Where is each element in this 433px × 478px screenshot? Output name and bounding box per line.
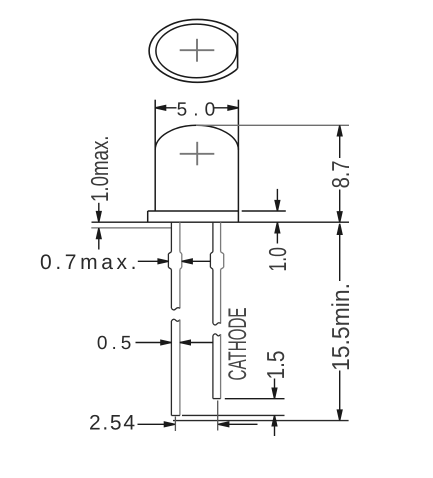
- front view center cross: [180, 142, 215, 166]
- svg-text:5.0: 5.0: [177, 99, 216, 120]
- svg-text:1.0max.: 1.0max.: [87, 136, 114, 203]
- dimension 5.0: [155, 106, 238, 111]
- top view center cross: [180, 39, 215, 62]
- front view: left extension line + dome left side: [154, 100, 156, 211]
- dimension 15.5min. (lead length): [337, 224, 342, 421]
- dimension 2.54: [138, 422, 258, 427]
- flange top right extension line: [242, 210, 286, 212]
- svg-text:15.5min.: 15.5min.: [328, 283, 355, 371]
- svg-text:1.5: 1.5: [263, 351, 290, 380]
- dimension 1.5 (lead length difference): [272, 379, 277, 437]
- tick at right lead center: [217, 401, 219, 431]
- dimension 0.5: [136, 340, 213, 345]
- dimension 1.0max. (left, vertical): [97, 203, 102, 250]
- flange bottom / main horizontal datum line: [92, 221, 350, 223]
- flange top line: [148, 210, 239, 212]
- tick at left lead center: [174, 417, 176, 432]
- LED top view: inner body ellipse: [156, 24, 237, 78]
- front view: right extension line + dome right side + flange right edge: [237, 100, 239, 223]
- front view: epoxy dome arc: [155, 125, 238, 150]
- gray seating line left: [91, 227, 171, 229]
- left lead bottom extension: [182, 414, 285, 416]
- svg-text:0.7max.: 0.7max.: [40, 251, 137, 274]
- svg-text:8.7: 8.7: [328, 160, 355, 188]
- dome top extension line: [196, 124, 349, 126]
- left lead (anode): [168, 222, 181, 415]
- svg-text:0.5: 0.5: [97, 333, 131, 354]
- long bottom extension for 15.5min: [173, 420, 349, 422]
- dimension 0.7max.: [138, 259, 211, 264]
- right lead bottom extension: [225, 398, 285, 400]
- dimension 1.0 (right of flange, vertical): [275, 189, 280, 244]
- svg-text:CATHODE: CATHODE: [224, 308, 252, 381]
- flange left edge: [147, 211, 149, 222]
- top view cathode flat edge: [237, 33, 239, 68]
- svg-text:1.0: 1.0: [265, 247, 292, 272]
- svg-text:2.54: 2.54: [89, 411, 135, 434]
- dimension 8.7 (body height): [337, 125, 342, 222]
- right lead (cathode, short): [210, 222, 223, 398]
- LED top view: outer flange ellipse with cathode flat: [149, 19, 246, 82]
